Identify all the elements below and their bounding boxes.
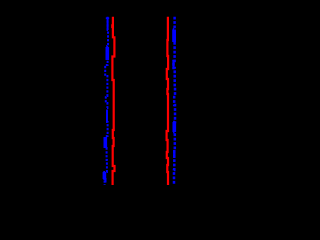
- blue wide solid blob left y172-179: [103, 172, 107, 179]
- right panel: blue dashed model profile: [174, 17, 176, 185]
- blue wide solid blob left y138-147.5: [104, 137, 108, 148]
- blue solid segment right y61-68: [172, 61, 174, 68]
- red solid line left: [112, 17, 114, 185]
- blue dashed line right: [174, 17, 176, 185]
- blue wide solid segment right y29.5-42: [172, 30, 176, 43]
- left panel: blue dashed model profile: [104, 17, 109, 185]
- right panel: red inverted profile: [167, 17, 169, 185]
- red solid line right: [167, 17, 169, 185]
- left panel: red inverted profile: [112, 17, 114, 185]
- blue wide solid segment left y47-60: [106, 47, 110, 60]
- blue dashed line left: [104, 17, 108, 185]
- blue solid segment left y179-181.5: [105, 179, 107, 182]
- blue wide solid blob right y122-132: [173, 122, 177, 132]
- blue top tick left: [106, 17, 109, 19]
- blue solid segment left y19-30: [107, 18, 109, 30]
- blue solid segment right y150-158: [173, 150, 175, 158]
- blue solid segment left y110-122: [106, 110, 108, 122]
